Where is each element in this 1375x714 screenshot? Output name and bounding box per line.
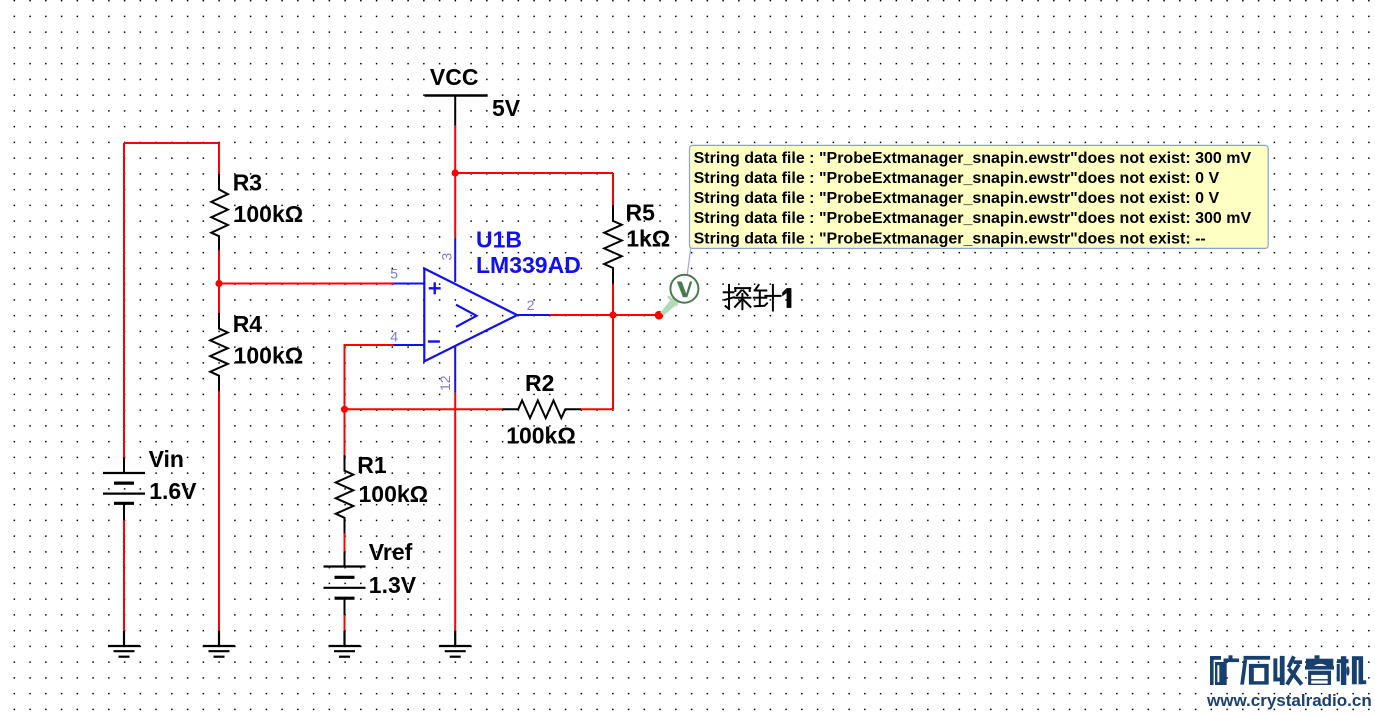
wire R1 bottom to Vref top [344, 534, 346, 552]
wire VCC stem red part [454, 126, 456, 173]
svg-text:3: 3 [439, 253, 455, 261]
svg-text:R4: R4 [233, 311, 263, 337]
svg-text:R1: R1 [357, 452, 387, 478]
op-amp U1B pin 12 stub [454, 346, 456, 393]
wire output node down to R2 right corner [612, 315, 614, 409]
wire top-left horizontal (Vin to R3) [124, 142, 219, 144]
svg-text:String data file : "ProbeExtma: String data file : "ProbeExtmanager_snap… [694, 170, 1220, 187]
svg-text:LM339AD: LM339AD [476, 252, 581, 278]
resistor R4 [210, 313, 228, 391]
battery Vin [103, 458, 145, 521]
svg-text:1kΩ: 1kΩ [626, 226, 670, 252]
probe circle V [670, 275, 698, 303]
op-amp U1B pin 4 stub [394, 344, 425, 346]
wire pin 4 to feedback riser [345, 345, 394, 409]
wire R2 right to R5 branch corner [581, 408, 613, 410]
wire Vref bottom to ground [344, 615, 346, 631]
watermark logo glyph 石 [1240, 656, 1270, 685]
svg-text:100kΩ: 100kΩ [506, 423, 576, 449]
wire R3 bottom to node A [218, 250, 220, 283]
watermark logo glyph 收 [1273, 656, 1302, 685]
svg-text:5V: 5V [492, 95, 521, 121]
wire R3 top stub [218, 143, 220, 174]
watermark logo glyph 矿 [1210, 655, 1239, 685]
wire feedback node to R2 left [345, 408, 503, 410]
svg-text:1.6V: 1.6V [149, 478, 197, 504]
probe name 探针1 (glyph 探) [724, 285, 751, 309]
wire output to probe dot [550, 314, 657, 316]
probe needle [660, 297, 678, 315]
ground (op-amp pin 12 branch) [439, 631, 471, 657]
op-amp U1B triangle [424, 269, 517, 362]
svg-text:R3: R3 [233, 170, 262, 196]
ground (Vref branch) [329, 631, 361, 657]
battery Vref [324, 552, 366, 616]
op-amp plus input marker [429, 282, 441, 294]
svg-text:R5: R5 [626, 200, 656, 226]
svg-text:R2: R2 [525, 370, 554, 396]
wire pin 12 down to ground [454, 393, 456, 631]
svg-text:String data file : "ProbeExtma: String data file : "ProbeExtmanager_snap… [694, 230, 1206, 247]
svg-text:100kΩ: 100kΩ [234, 342, 304, 368]
watermark logo glyph 机 [1337, 656, 1367, 685]
resistor R1 [336, 455, 354, 534]
svg-text:5: 5 [390, 265, 398, 281]
svg-text:U1B: U1B [476, 227, 522, 253]
VCC power symbol [425, 96, 488, 126]
ground (Vin branch) [108, 631, 140, 657]
svg-text:String data file : "ProbeExtma: String data file : "ProbeExtmanager_snap… [694, 190, 1220, 207]
svg-text:100kΩ: 100kΩ [234, 201, 304, 227]
svg-text:Vref: Vref [369, 539, 413, 565]
op-amp U1B pin 5 stub [394, 283, 425, 285]
wire VCC node to R5 top [455, 172, 613, 174]
op-amp U1B pin 2 output stub [517, 314, 550, 316]
node feedback junction dot [341, 406, 348, 413]
wire R5 bottom to output node [612, 284, 614, 315]
wire Vin bottom to ground [123, 520, 125, 631]
node VCC junction dot [452, 169, 459, 176]
op-amp comparator symbol [456, 305, 477, 327]
watermark logo glyph 音 [1306, 655, 1333, 666]
wire left vertical (down to Vin battery) [123, 143, 125, 458]
svg-text:www.crystalradio.cn: www.crystalradio.cn [1206, 691, 1372, 710]
tooltip message box [690, 145, 1269, 248]
svg-text:String data file : "ProbeExtma: String data file : "ProbeExtmanager_snap… [694, 210, 1252, 227]
wire node A to op-amp pin 5 [219, 283, 394, 285]
probe leader line to tooltip [687, 247, 691, 274]
wire R1 top stub from feedback node [344, 409, 346, 455]
resistor R3 [211, 174, 228, 250]
svg-text:String data file : "ProbeExtma: String data file : "ProbeExtmanager_snap… [694, 150, 1252, 167]
svg-text:12: 12 [437, 375, 453, 391]
wire R4 bottom to ground [218, 391, 220, 630]
resistor R2 [503, 401, 582, 419]
wire node A to R4 top [218, 284, 220, 314]
probe name 探针1 (glyph 针) [754, 285, 781, 311]
ground (R4 branch) [203, 631, 235, 657]
svg-text:VCC: VCC [430, 64, 479, 90]
node A junction dot (R3/R4/pin5) [215, 280, 222, 287]
wire R5 top stub [612, 173, 614, 205]
resistor R5 [604, 205, 622, 284]
probe name 探针1 (digit 1) [787, 288, 792, 308]
wire VCC node to pin 3 [454, 173, 456, 238]
svg-text:2: 2 [527, 297, 535, 313]
probe attachment dot [655, 311, 664, 320]
svg-text:4: 4 [390, 328, 398, 344]
node output junction dot [609, 311, 616, 318]
op-amp U1B pin 3 stub [454, 238, 456, 282]
svg-text:Vin: Vin [149, 446, 184, 472]
op-amp minus input marker [428, 340, 440, 342]
svg-text:100kΩ: 100kΩ [359, 481, 429, 507]
svg-text:1.3V: 1.3V [369, 572, 417, 598]
